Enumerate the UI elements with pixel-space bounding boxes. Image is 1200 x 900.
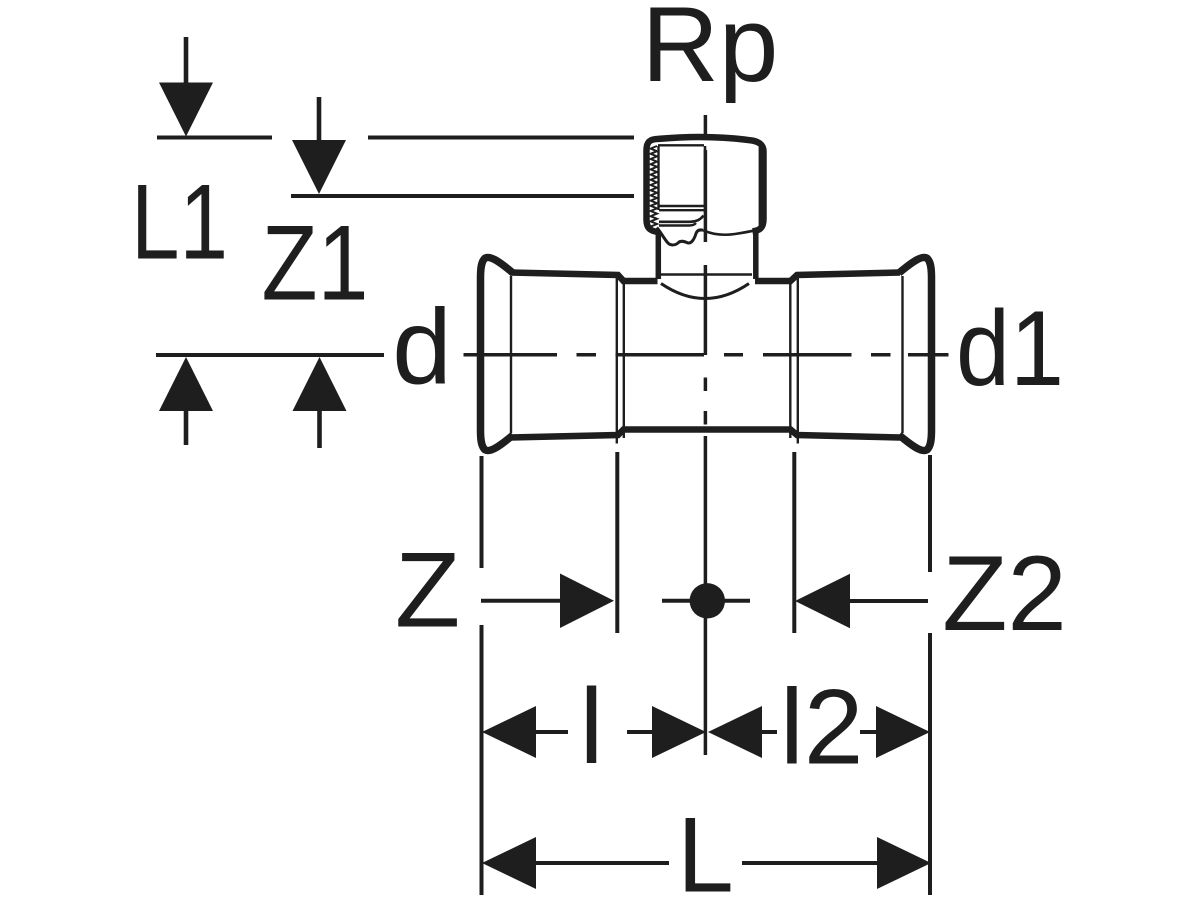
connector right wall inner edge (759, 147, 761, 227)
svg-text:d: d (392, 287, 452, 407)
branch-to-pipe saddle arc (661, 284, 749, 299)
extension line below left socket end (480, 456, 484, 895)
svg-text:l: l (580, 666, 604, 786)
dimension arrow L1 bottom (up) (159, 357, 213, 445)
section break wavy line (657, 228, 703, 245)
svg-text:d1: d1 (956, 288, 1064, 408)
svg-text:L: L (677, 795, 734, 900)
svg-text:Z: Z (395, 530, 460, 650)
thread bore axis edge (704, 146, 707, 206)
tee fitting: bottom outline (510, 430, 900, 438)
thread bore bottom edge (659, 205, 704, 208)
thread bore left edge (657, 146, 659, 210)
thread relief line (659, 209, 704, 211)
connector bottom edge right half (703, 230, 756, 235)
branch neck right edge (753, 231, 759, 280)
extension line, thread gauge plane (291, 194, 634, 198)
short line through centre dot (662, 599, 750, 603)
svg-text:Z2: Z2 (942, 533, 1067, 653)
tee fitting: right press socket end cap (899, 257, 932, 450)
branch neck left edge (656, 231, 662, 279)
dimension l2 left arrow (708, 706, 777, 758)
internal thread zigzag (651, 146, 657, 227)
extension line, top of branch (left segment) (157, 136, 272, 140)
extension line at pipe axis level (left of d) (156, 353, 384, 357)
dimension Z arrow (points right at bead line) (481, 574, 614, 629)
svg-text:l2: l2 (780, 667, 863, 787)
tee fitting: left press socket end cap (481, 257, 514, 450)
tee fitting: top outline right of branch (755, 273, 900, 282)
centre reference dot (690, 583, 725, 618)
extension line, top of branch (right segment to fitting) (368, 136, 634, 140)
vertical centerline of branch (chain line) (704, 115, 708, 755)
dimension arrow Z1 bottom (up) (293, 357, 347, 448)
connector shoulder line upper (659, 216, 704, 222)
dimension L right arrow (742, 837, 931, 889)
dimension arrow Z1 top (down) (292, 97, 346, 194)
left press bead line (socket side) (616, 277, 618, 444)
dimension arrow L1 top (down) (159, 37, 213, 137)
right press bead line (socket side) (797, 277, 799, 444)
extension line below left press bead (615, 452, 619, 633)
dimension l left arrow (482, 706, 568, 758)
right press bead line (tube side) (789, 282, 791, 438)
extension line below right press bead (792, 452, 796, 633)
connector inner top edge (658, 144, 704, 146)
left press bead line (tube side) (623, 282, 625, 438)
branch threaded connector outline (647, 137, 764, 232)
dimension l2 right arrow (860, 706, 930, 758)
dimension Z2 arrow (points left at bead line) (795, 574, 928, 628)
svg-text:L1: L1 (131, 162, 228, 282)
tee fitting: right end cap inner edge (901, 276, 903, 433)
horizontal centerline of pipe (chain line) (464, 353, 949, 357)
dimension L left arrow (482, 837, 669, 889)
pipe top edge through branch junction (660, 273, 752, 275)
tee fitting: top outline left of branch (510, 273, 658, 282)
dimension l right arrow (627, 706, 706, 758)
extension line below right socket end (928, 455, 932, 895)
connector shoulder line lower (659, 223, 696, 226)
svg-text:Z1: Z1 (262, 203, 369, 323)
tee fitting: left end cap inner edge (510, 276, 512, 433)
svg-text:Rp: Rp (642, 0, 779, 104)
